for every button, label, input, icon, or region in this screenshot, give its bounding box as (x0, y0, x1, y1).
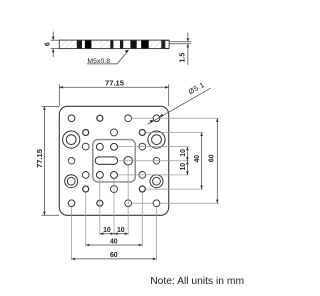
counterbored wheel hole bottom-right (150, 175, 163, 188)
hole Ø5.1 (+20,+10) (139, 172, 146, 179)
hole Ø5.1 corner bottom-right (153, 200, 160, 207)
dimension 77.15 left: arrowheads (43, 106, 46, 215)
dimension 6: dimension line with outside arrows (52, 32, 55, 58)
hole Ø5.1 corner top-right (153, 115, 160, 122)
extension line col +20 to bottom 40 dim (141, 193, 143, 247)
section thread block 6 (141, 40, 149, 49)
boss hole (-10,+10) (96, 172, 103, 179)
hole M5 tapped (+20,+20) (139, 186, 145, 192)
extension line row -10 to right 10 dim (118, 146, 189, 148)
dimension 60 right: dimension line (216, 118, 218, 203)
svg-text:Note: All units in mm: Note: All units in mm (150, 276, 244, 287)
svg-text:60: 60 (110, 252, 118, 259)
thread callout leader arrowhead (125, 50, 129, 53)
extension line col 0 to bottom 10 dim (113, 179, 115, 235)
svg-text:10: 10 (117, 227, 125, 234)
svg-text:10: 10 (180, 163, 187, 171)
section view body (hatched cross-section of plate) (59, 40, 168, 49)
section thread block 7 (161, 40, 165, 49)
dimension 40 bottom: dimension line (86, 244, 143, 246)
dimension 1.5: extension lines (169, 42, 191, 44)
extension line col -20 to bottom 40 dim (85, 193, 87, 247)
hole Ø5.1 (0,-20) (111, 129, 118, 136)
section tapped-hole thread block 2 (85, 40, 92, 49)
counterbored wheel hole top-left (63, 131, 80, 148)
svg-text:10: 10 (103, 227, 111, 234)
dimension 1.5: dimension line with outside arrows (187, 33, 190, 66)
diameter callout Ø5.1 leader line through corner hole (148, 88, 211, 124)
hole Ø5.1 mid-left (68, 157, 75, 164)
dimension 10/10 bottom: arrowheads (100, 232, 128, 235)
section right end cap (165, 40, 169, 48)
extension line row -20 to right 40 dim (146, 131, 203, 133)
gantry plate outline (plan view) (59, 106, 168, 215)
dimension 10/10 bottom: dimension line (100, 233, 128, 235)
dimension 77.15 left: dimension line (43, 106, 45, 215)
extension line row 0 to right 10 dim (119, 160, 190, 162)
dimension 40 right: dimension line (201, 132, 203, 189)
thread callout leader line (87, 51, 128, 64)
hole M5 tapped top (-10,-30) (97, 115, 103, 121)
dimension 10/10 right: arrowheads (186, 147, 189, 175)
boss hole (0,+10) (111, 172, 118, 179)
extension line col -10 to bottom 10 dim (99, 179, 101, 235)
centre slot (95, 157, 117, 164)
dimension 60 bottom: arrowheads (72, 258, 157, 261)
section tapped-hole thread block 1 (77, 40, 82, 49)
boss hole (-10,-10) (96, 143, 103, 150)
section thread block 4 (120, 40, 123, 49)
dimension 77.15 left: extension lines (41, 106, 59, 215)
dimension 60 right: arrowheads (216, 118, 219, 203)
hole Ø5.1 top (+10,-30) (125, 115, 132, 122)
corner holes redrawn over extension lines (68, 115, 160, 207)
svg-text:60: 60 (208, 154, 215, 162)
extension line row -30 to right 60 dim (132, 117, 219, 119)
hole Ø5.1 (-20,-10) (82, 143, 89, 150)
hole (+10,0) (124, 156, 133, 165)
svg-text:77.15: 77.15 (35, 148, 44, 168)
hole M5 tapped bottom (-10,+30) (97, 200, 103, 206)
hole Ø5.1 bottom (+10,+30) (125, 200, 132, 207)
dimension 6: extension lines (51, 40, 60, 48)
extension line col +10 to bottom 10 dim (127, 165, 129, 235)
svg-text:10: 10 (180, 149, 187, 157)
hole Ø5.1 (-20,+10) (82, 172, 89, 179)
centre square boss outline (93, 140, 135, 182)
svg-text:40: 40 (110, 238, 118, 245)
section outline (59, 40, 168, 49)
hole M5 tapped (-20,+20) (83, 186, 89, 192)
dimension 77.15 top: extension lines (59, 84, 168, 106)
extension line row +20 to right 40 dim (146, 188, 203, 190)
dimension 77.15 top: arrowheads (59, 86, 168, 89)
svg-text:1.5: 1.5 (179, 53, 186, 63)
hole M5 tapped (+20,-20) (139, 129, 145, 135)
hole Ø5.1 (0,+20) (111, 186, 118, 193)
hole Ø5.1 corner top-left (68, 115, 75, 122)
extension line col -30 to bottom 60 dim (71, 207, 73, 261)
extension line col +30 to bottom 60 dim (155, 207, 157, 261)
hole Ø5.1 mid-right (153, 157, 160, 164)
hole Ø5.1 corner bottom-left (68, 200, 75, 207)
section thread block 3 (110, 40, 113, 49)
dimension 40 bottom: arrowheads (86, 244, 143, 247)
boss hole (0,-10) (111, 143, 118, 150)
hole M5 tapped (-20,-20) (83, 129, 89, 135)
dimension 77.15 top: dimension line (59, 86, 168, 88)
extension line row +10 to right 10 dim (118, 174, 189, 176)
svg-text:6: 6 (44, 42, 51, 46)
dimension 40 right: arrowheads (200, 132, 203, 189)
svg-text:40: 40 (194, 155, 201, 163)
dimension 10/10 right: dimension line (186, 147, 188, 175)
extension line row +30 to right 60 dim (132, 202, 219, 204)
counterbored wheel hole bottom-left (65, 175, 78, 188)
hole Ø5.1 (+20,-10) (139, 143, 146, 150)
counterbored wheel hole top-right (148, 131, 165, 148)
diameter callout arrowheads (150, 114, 164, 123)
section thread block 5 (130, 40, 136, 49)
dimension 60 bottom: dimension line (72, 258, 157, 260)
svg-text:77.15: 77.15 (105, 79, 125, 88)
